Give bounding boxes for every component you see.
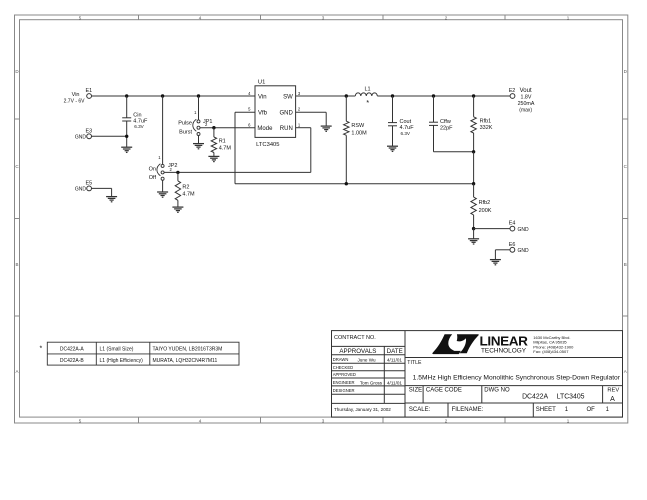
resistor RSW [344,96,368,184]
svg-text:1.5MHz High Efficiency Monolit: 1.5MHz High Efficiency Monolithic Synchr… [413,374,621,381]
svg-text:CONTRACT NO.: CONTRACT NO. [334,335,376,341]
svg-text:SW: SW [283,95,293,101]
wire JP2 pin 2 to U1 RUN pin 1 [164,128,311,173]
node RSW to feedback rail [345,182,348,185]
svg-text:TECHNOLOGY: TECHNOLOGY [481,349,526,355]
wire Rfb1 to feedback rail [473,152,475,184]
Linear Technology logo [432,334,528,354]
svg-text:A: A [624,369,627,374]
svg-text:TITLE: TITLE [407,360,422,366]
svg-text:R1: R1 [219,139,226,145]
node JP2 tap [161,94,164,97]
svg-text:Pulse: Pulse [178,121,192,127]
node R1 tap [212,126,215,129]
pin number 1 JP1 [194,110,197,115]
svg-text:REV: REV [607,388,619,394]
node Cin/E3 junction [125,135,128,138]
svg-text:Cffw: Cffw [440,119,451,125]
wire JP1 pin 2 to U1 Mode pin 6 [200,127,255,129]
pin number 2 JP2 [170,167,173,172]
svg-text:E3: E3 [86,128,93,134]
wire Vin rail E1 to U1 pin 4 [91,95,255,97]
svg-text:B: B [15,262,18,267]
node Cffw tap [432,94,435,97]
terminal E4 [509,221,529,233]
svg-text:4.7M: 4.7M [219,145,232,151]
svg-text:Rfb1: Rfb1 [480,119,492,125]
ground below Cout [387,146,398,151]
wire E5 to ground [91,188,111,196]
svg-text:APPROVALS: APPROVALS [339,348,376,355]
svg-text:4/11/01: 4/11/01 [387,358,402,363]
svg-text:Mode: Mode [257,126,273,132]
svg-text:Off: Off [149,175,157,181]
svg-text:E4: E4 [509,221,516,227]
terminal E1 [86,88,93,99]
svg-text:L1 (Small Size): L1 (Small Size) [100,347,134,353]
svg-text:Cout: Cout [400,119,412,125]
svg-text:R2: R2 [182,185,189,191]
svg-text:GND: GND [75,134,87,140]
svg-text:LINEAR: LINEAR [480,334,528,348]
node feedback junction [472,182,475,185]
wire junction to ground [473,229,475,239]
wire E6 to ground [495,250,510,260]
node R2 tap [176,171,179,174]
svg-text:22pF: 22pF [440,125,453,131]
title text [413,374,621,381]
svg-text:E1: E1 [86,88,93,94]
node Cffw/Rfb1 junction [472,150,475,153]
terminal E5 [75,180,92,192]
svg-text:6.3V: 6.3V [134,124,144,129]
svg-text:SIZE: SIZE [409,387,422,393]
svg-text:DWG NO: DWG NO [484,387,510,393]
resistor Rfb1 [471,96,493,152]
svg-text:A: A [610,396,615,403]
svg-text:6.3V: 6.3V [401,131,411,136]
svg-text:DESIGNER: DESIGNER [333,388,355,393]
wire JP1 pin 3 to ground [198,136,200,144]
wire L1 to E2 Vout [377,95,510,97]
svg-text:DATE: DATE [387,348,403,355]
svg-text:Vout: Vout [520,88,532,94]
label Burst [179,129,192,135]
ground below JP2 [157,192,168,197]
svg-text:GND: GND [518,227,530,233]
svg-text:DC422A: DC422A [522,393,548,400]
svg-text:RUN: RUN [280,126,293,132]
inductor L1 [355,86,377,107]
svg-text:FILENAME:: FILENAME: [452,407,484,413]
net label Vout [518,88,535,114]
capacitor Cin [122,96,148,136]
terminal E6 [509,242,529,254]
svg-text:*: * [366,98,369,107]
ground below R2 [172,207,183,212]
label Off [149,175,157,181]
svg-text:SCALE:: SCALE: [409,407,431,413]
pin number 4 U1 Vin [248,91,251,96]
svg-text:E6: E6 [509,242,516,248]
wire U1 SW pin 3 to L1 [296,95,356,97]
svg-text:E5: E5 [86,180,93,186]
ground below R1 [208,156,219,161]
wire U1 GND pin 2 to ground [296,112,327,126]
svg-text:L1: L1 [365,86,371,92]
label On [149,167,156,173]
svg-text:TAIYO YUDEN, LB2016T3R3M: TAIYO YUDEN, LB2016T3R3M [153,347,223,353]
svg-text:1.8V: 1.8V [521,95,532,101]
wire U1 Vfb to feedback rail [235,112,474,183]
svg-text:GND: GND [518,248,530,254]
terminal E3 [75,128,92,140]
svg-text:CHECKED: CHECKED [333,365,353,370]
svg-text:Rfb2: Rfb2 [479,200,491,206]
svg-text:MURATA, LQH32CN4R7M11: MURATA, LQH32CN4R7M11 [153,358,218,364]
pin number 1 U1 RUN [298,122,301,127]
ground below Rfb2 [468,239,479,244]
pin number 2 JP1 [205,122,208,127]
resistor Rfb2 [471,184,492,229]
svg-text:June Wu: June Wu [357,358,375,363]
svg-text:4/11/01: 4/11/01 [387,380,402,385]
title block [332,331,623,418]
svg-text:CAGE CODE: CAGE CODE [426,387,462,393]
node Cout tap [391,94,394,97]
net label Vin [64,92,86,105]
capacitor Cout [388,96,414,146]
svg-text:*: * [40,346,43,353]
svg-text:Thursday, January 31, 2002: Thursday, January 31, 2002 [334,407,391,412]
svg-text:1.00M: 1.00M [351,131,367,137]
ground below E5 [106,197,117,202]
svg-text:4.7M: 4.7M [182,191,195,197]
node Rfb1 tap [472,94,475,97]
ground below E6 [490,260,501,265]
pin number 5 U1 Vfb [248,107,251,112]
svg-text:GND: GND [279,110,293,116]
svg-text:U1: U1 [258,80,265,86]
svg-text:RSW: RSW [351,123,365,129]
wire Vin rail to JP1 pin 1 [198,96,200,120]
resistor R1 [211,128,231,157]
svg-text:Vfb: Vfb [258,110,268,116]
pin number 6 U1 Mode [248,122,251,127]
terminal E2 [509,88,516,99]
address block [533,335,574,354]
svg-text:On: On [149,167,156,173]
svg-text:Vin: Vin [258,95,267,101]
svg-text:ENGINEER: ENGINEER [333,380,355,385]
svg-text:Fax: (408)434-0507: Fax: (408)434-0507 [533,349,569,354]
pin number 2 U1 GND [298,107,301,112]
svg-text:E2: E2 [509,88,516,94]
svg-text:2.7V - 6V: 2.7V - 6V [64,99,86,105]
pin number 1 JP2 [158,155,161,160]
op-amp U1 LTC3405 [255,80,296,149]
wire E3 to Cin bottom [91,136,126,147]
svg-text:LTC3405: LTC3405 [557,393,585,400]
node Rfb2/E4 junction [472,227,475,230]
svg-text:DRAWN: DRAWN [333,357,349,362]
wire Vin rail to JP2 pin 1 [162,96,164,164]
svg-text:A: A [15,369,18,374]
svg-text:LTC3405: LTC3405 [256,142,279,148]
wire JP2 pin 3 to ground [162,180,164,192]
node JP1 tap [197,94,200,97]
node Cin tap [125,94,128,97]
svg-text:Vin: Vin [72,92,80,98]
jumper JP2 [157,163,178,180]
svg-text:DC422A-A: DC422A-A [60,347,85,353]
pin number 3 U1 SW [298,91,301,96]
node SW/RSW junction [345,94,348,97]
svg-text:B: B [624,262,627,267]
ground below JP1 [193,144,204,149]
label Pulse [178,121,192,127]
svg-text:L1 (High Efficiency): L1 (High Efficiency) [100,358,144,364]
svg-text:(max): (max) [519,107,532,113]
svg-text:Burst: Burst [179,129,192,135]
svg-text:DC422A-B: DC422A-B [60,358,85,364]
drawing number [522,393,585,400]
L1 option table [47,342,239,365]
resistor R2 [175,172,195,207]
svg-text:250mA: 250mA [518,101,535,107]
svg-text:GND: GND [75,186,87,192]
jumper JP1 [193,119,213,136]
capacitor Cffw [429,96,474,152]
svg-text:OF: OF [587,407,596,413]
note marker asterisk [40,346,43,353]
ground below Cin [121,147,132,152]
ground U1 GND pin [321,126,332,131]
svg-text:Tom Gross: Tom Gross [360,380,383,385]
svg-text:SHEET: SHEET [536,407,556,413]
svg-text:200K: 200K [479,208,492,214]
svg-text:332K: 332K [480,125,493,131]
wire junction to E4 [474,228,510,230]
svg-text:APPROVED: APPROVED [333,372,356,377]
